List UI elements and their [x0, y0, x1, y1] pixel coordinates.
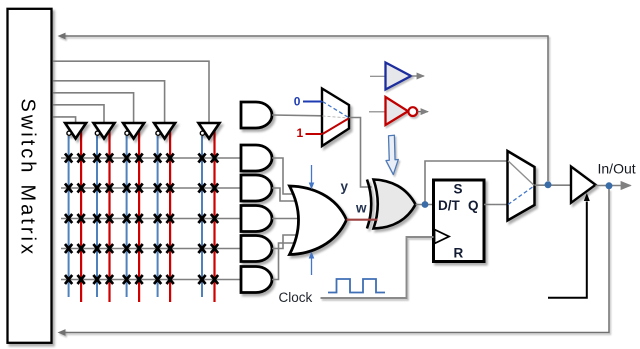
AND gate U6 [241, 267, 272, 293]
wire AND U4 output to OR input [272, 218, 300, 220]
mux M2 internal gray path [508, 161, 534, 185]
row wire 2 to AND gate [61, 187, 241, 189]
AND gate U1 (mux select) [241, 102, 272, 128]
wire XOR output bypass to right mux M2 [425, 161, 508, 205]
switch-point X marks row 5 [65, 275, 218, 284]
column buffer/inverter pair T5 [199, 123, 220, 139]
column 2 inverted (blue) line [96, 136, 98, 297]
column 4 true (red) line [169, 130, 171, 302]
bottom feedback wire (from In/Out junction to switch matrix) [58, 189, 610, 336]
clock waveform [328, 279, 385, 293]
top feedback wire (from right mux output junction to switch matrix) [58, 33, 549, 181]
mux M1 (2:1 mux with 0/1 constants) [322, 89, 349, 147]
node: XOR output junction [416, 204, 434, 206]
AND gate U3 [241, 175, 272, 201]
mux M1 internal select dashed gray [323, 116, 349, 118]
wire constant-1 into mux M1 [306, 133, 323, 135]
svg-text:Switch: Switch [17, 99, 39, 176]
tri-state enable wire with up arrow [548, 193, 590, 298]
column buffer/inverter pair T2 [94, 123, 115, 139]
clock wire to FF [321, 237, 434, 298]
XOR gate U8 [367, 180, 416, 229]
flip-flop U9 [434, 180, 485, 262]
wire AND U3 output to OR input [272, 188, 297, 201]
column 5 true (red) line [213, 130, 215, 302]
row wire 3 to AND gate [61, 218, 241, 220]
wire mux M2 output to tri-state buffer [535, 184, 572, 186]
wire FF Q output to right mux M2 [484, 204, 508, 206]
switch-point X marks row 4 [65, 244, 218, 253]
svg-text:w: w [355, 201, 367, 216]
blue select-indicator arrow above OR gate [309, 165, 315, 190]
wire constant-0 into mux M1 [303, 101, 322, 103]
wire from switch matrix to buffer T4 [53, 81, 165, 122]
tri-state output buffer U10 [571, 167, 596, 203]
wire mux M1 output to XOR input y [349, 118, 372, 188]
right mux M2 (FF bypass mux) [508, 151, 535, 221]
wire AND U1 output to mux M1 [272, 114, 322, 117]
column 2 true (red) line [108, 130, 110, 302]
column 5 inverted (blue) line [201, 136, 203, 297]
column 4 inverted (blue) line [157, 136, 159, 297]
mux M1 internal red path [323, 119, 349, 135]
blue select-indicator arrow below OR gate [309, 252, 315, 276]
svg-text:y: y [341, 179, 349, 194]
svg-text:0: 0 [294, 95, 301, 109]
svg-text:1: 1 [297, 126, 304, 140]
switch-point X marks row 1 [65, 154, 218, 163]
wire w: OR output to XOR input [347, 219, 378, 221]
wire from switch matrix to buffer T1 [53, 117, 76, 122]
svg-text:In/Out: In/Out [598, 161, 636, 177]
column 1 true (red) line [80, 130, 82, 302]
column buffer/inverter pair T1 [65, 123, 86, 139]
svg-text:Clock: Clock [279, 290, 313, 305]
legend inverter (red) with bubble [369, 97, 428, 125]
wire buffer output to In/Out pad [596, 185, 631, 187]
row wire 1 to AND gate [61, 157, 241, 159]
OR gate U7 [290, 186, 347, 255]
svg-text:D/T: D/T [438, 198, 461, 213]
wire from switch matrix to buffer T2 [53, 105, 104, 122]
row wire 4 to AND gate [61, 248, 241, 250]
column buffer/inverter pair T3 [123, 123, 144, 139]
svg-text:Matrix: Matrix [17, 185, 39, 257]
junction dot at mux M2 output [545, 181, 552, 188]
mux M1 internal blue dashed path [323, 102, 349, 118]
switch-point X marks row 2 [65, 184, 218, 193]
wire from switch matrix to buffer T3 [53, 93, 134, 122]
wire AND U6 output to OR input [272, 243, 296, 280]
svg-text:Q: Q [468, 198, 479, 213]
svg-text:R: R [454, 246, 464, 261]
mux M2 internal blue dashed path [508, 186, 534, 205]
wire from switch matrix to buffer T5 [53, 61, 209, 122]
legend buffer (blue) [370, 63, 424, 90]
AND gate U2 [241, 145, 272, 171]
AND gate U4 [241, 206, 272, 232]
row wire 5 to AND gate [61, 279, 241, 281]
column 3 true (red) line [138, 130, 140, 302]
column 1 inverted (blue) line [68, 136, 70, 297]
svg-text:S: S [454, 182, 463, 197]
switch matrix box [8, 9, 52, 343]
junction dot at In/Out [606, 182, 613, 189]
wire AND U2 output to OR input [272, 158, 295, 194]
switch-point X marks row 3 [65, 214, 218, 223]
AND gate U5 [241, 236, 272, 262]
column buffer/inverter pair T4 [154, 123, 175, 139]
FF clock input triangle [435, 230, 450, 244]
junction dot at XOR output [422, 201, 429, 208]
blue block arrow pointing down [384, 135, 400, 175]
wire AND U5 output to OR input [272, 235, 298, 249]
column 3 inverted (blue) line [126, 136, 128, 297]
